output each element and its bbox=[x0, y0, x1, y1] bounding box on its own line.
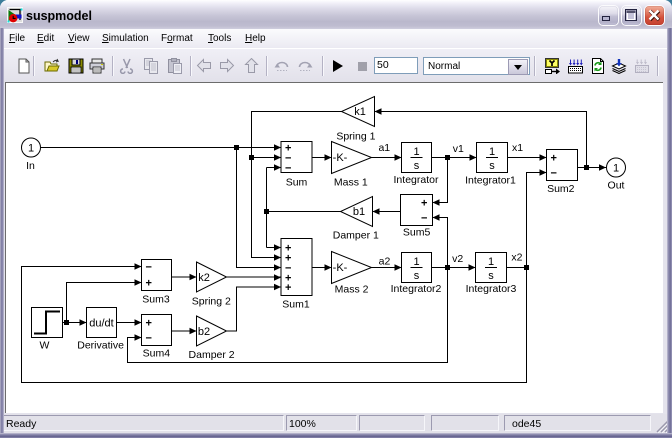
gain b1 Damper 1 (left-pointing triangle) bbox=[341, 197, 373, 227]
junction k1/Sum input 2 bbox=[249, 155, 254, 160]
wire Integrator1 to Sum2 + (x1) bbox=[508, 157, 547, 159]
svg-text:−: − bbox=[285, 163, 291, 175]
arrowhead Sum2 - input bbox=[540, 169, 547, 176]
arrowhead Integrator1 input bbox=[470, 154, 477, 161]
arrowhead Sum4 + input bbox=[135, 319, 142, 326]
gain Mass 2 (-K- triangle) bbox=[332, 252, 372, 284]
svg-text:b2: b2 bbox=[198, 326, 210, 338]
svg-text:Sum3: Sum3 bbox=[142, 294, 170, 306]
sum block Sum3 bbox=[142, 260, 172, 291]
svg-text:1: 1 bbox=[413, 256, 419, 268]
arrowhead Sum input 2 bbox=[274, 154, 281, 161]
svg-text:Sum5: Sum5 bbox=[403, 227, 431, 239]
arrowhead b2 input bbox=[190, 328, 197, 335]
svg-text:Damper 2: Damper 2 bbox=[189, 349, 235, 361]
derivative block du/dt bbox=[87, 308, 117, 338]
sum block Sum4 bbox=[142, 315, 172, 346]
wire k1 output left-down to Sum input 2 and Sum1 input 2 bbox=[252, 112, 342, 258]
svg-text:-K-: -K- bbox=[333, 152, 348, 164]
arrowhead Sum1 input 3 bbox=[274, 264, 281, 271]
step waveform inside W bbox=[34, 312, 60, 334]
arrowhead Sum3 - input bbox=[135, 263, 142, 270]
svg-text:du/dt: du/dt bbox=[89, 318, 113, 330]
svg-text:s: s bbox=[489, 160, 495, 172]
svg-text:1: 1 bbox=[28, 143, 34, 155]
arrowhead Sum1 input 4 bbox=[274, 274, 281, 281]
outport Out (circle 1) bbox=[607, 158, 626, 177]
svg-text:s: s bbox=[488, 270, 494, 282]
svg-text:−: − bbox=[146, 333, 152, 345]
arrowhead Integrator input bbox=[395, 154, 402, 161]
svg-text:Out: Out bbox=[608, 180, 625, 192]
wire v2 branch down-left-up to Sum4 - input bbox=[128, 268, 448, 363]
wire In to Sum input 1 bbox=[41, 147, 281, 149]
arrowhead Out port input bbox=[599, 164, 606, 171]
svg-text:Sum4: Sum4 bbox=[143, 348, 171, 360]
svg-text:v1: v1 bbox=[453, 143, 464, 155]
wire Integrator to Integrator1 (v1) bbox=[432, 157, 477, 159]
arrowhead Sum5 + input (points left) bbox=[433, 199, 440, 206]
port sign labels of sum blocks bbox=[146, 143, 557, 345]
svg-text:Sum2: Sum2 bbox=[547, 183, 575, 195]
wire Sum4 output to b2 input bbox=[172, 330, 197, 332]
integrator 1/s fractions bbox=[413, 146, 495, 282]
arrowhead Mass 2 input bbox=[325, 264, 332, 271]
wire Integrator3 output to x2 junction bbox=[507, 267, 527, 269]
svg-text:1: 1 bbox=[488, 256, 494, 268]
wire v1 branch down to Sum5 + input bbox=[433, 158, 448, 203]
wire b1 output left to junction bbox=[267, 211, 341, 213]
svg-text:In: In bbox=[26, 160, 35, 172]
wire Sum3 output to k2 input bbox=[172, 276, 197, 278]
block name labels bbox=[26, 131, 624, 362]
wire x2 junction down-left-up to Sum3 - input bbox=[22, 267, 527, 383]
wire Sum5 output to b1 input bbox=[373, 211, 401, 213]
integrator block Integrator1 bbox=[477, 143, 508, 173]
svg-text:Spring 1: Spring 1 bbox=[336, 131, 375, 143]
svg-text:Derivative: Derivative bbox=[77, 340, 124, 352]
svg-text:k1: k1 bbox=[354, 106, 366, 118]
sum block Sum2 bbox=[547, 150, 578, 181]
wire b1 junction up to Sum input 3 and down to Sum1 input 1 bbox=[267, 168, 282, 248]
wire Derivative output to Sum4 + input bbox=[117, 322, 142, 324]
svg-text:+: + bbox=[285, 282, 291, 294]
svg-text:Integrator3: Integrator3 bbox=[466, 283, 517, 295]
wire In branch down to Sum1 input 3 bbox=[237, 148, 282, 268]
svg-text:−: − bbox=[551, 168, 557, 180]
wire b2 output up to Sum1 input 5 bbox=[227, 287, 282, 331]
arrowhead k2 input bbox=[190, 274, 197, 281]
svg-text:Damper 1: Damper 1 bbox=[333, 230, 379, 242]
junction b1 wire bbox=[264, 209, 269, 214]
arrowhead Sum input 1 bbox=[274, 144, 281, 151]
wire W junction up to Sum3 + input bbox=[67, 283, 142, 323]
wire Sum2 output to Out port bbox=[578, 167, 607, 169]
svg-text:v2: v2 bbox=[452, 253, 463, 265]
svg-text:1: 1 bbox=[613, 163, 619, 175]
arrowhead Sum input 3 bbox=[274, 164, 281, 171]
svg-text:+: + bbox=[146, 278, 152, 290]
svg-text:Spring 2: Spring 2 bbox=[192, 296, 231, 308]
svg-text:s: s bbox=[414, 160, 420, 172]
svg-text:k2: k2 bbox=[198, 272, 210, 284]
arrowhead Sum1 input 2 bbox=[274, 254, 281, 261]
integrator block Integrator3 bbox=[476, 253, 507, 283]
arrowhead k1 input (points left) bbox=[375, 108, 382, 115]
svg-text:Mass 2: Mass 2 bbox=[335, 284, 369, 296]
svg-text:a2: a2 bbox=[379, 256, 391, 268]
svg-text:1: 1 bbox=[413, 146, 419, 158]
arrowhead Sum1 input 1 bbox=[274, 244, 281, 251]
junction W output bbox=[64, 320, 69, 325]
svg-text:+: + bbox=[421, 198, 427, 210]
arrowhead Mass 1 input bbox=[325, 154, 332, 161]
arrowhead Integrator3 input bbox=[469, 264, 476, 271]
svg-text:s: s bbox=[414, 270, 420, 282]
junction on In wire bbox=[234, 145, 239, 150]
svg-text:Sum1: Sum1 bbox=[282, 299, 310, 311]
svg-text:W: W bbox=[39, 340, 49, 352]
arrowhead Derivative input bbox=[80, 319, 87, 326]
svg-text:−: − bbox=[421, 213, 427, 225]
inport In (circle 1) bbox=[22, 138, 41, 157]
svg-text:Mass 1: Mass 1 bbox=[334, 177, 368, 189]
wire k2 output to Sum1 input 4 bbox=[227, 276, 282, 278]
svg-text:Integrator2: Integrator2 bbox=[391, 283, 442, 295]
integrator block Integrator2 bbox=[402, 253, 432, 283]
wire Integrator2 to Integrator3 (v2) bbox=[432, 267, 476, 269]
gain Mass 1 (-K- triangle) bbox=[332, 142, 372, 174]
gain value texts bbox=[28, 106, 619, 338]
junction Sum2 output bbox=[584, 165, 589, 170]
signal name labels bbox=[378, 142, 523, 268]
wire Sum output to Mass 1 bbox=[312, 157, 332, 159]
svg-text:b1: b1 bbox=[353, 206, 365, 218]
gain b2 Damper 2 bbox=[197, 316, 227, 346]
svg-text:+: + bbox=[551, 153, 557, 165]
arrowhead Sum2 + input bbox=[540, 154, 547, 161]
sum block Sum5 (mirrored) bbox=[401, 195, 433, 226]
wire Mass 1 to Integrator (a1) bbox=[372, 157, 402, 159]
arrowhead Sum5 - input (points left) bbox=[433, 214, 440, 221]
arrowhead Sum3 + input bbox=[135, 279, 142, 286]
wire x2 junction up to Sum2 - input bbox=[527, 173, 547, 268]
junction v2 bbox=[445, 265, 450, 270]
arrowhead Sum1 input 5 bbox=[274, 284, 281, 291]
wire Sum1 output to Mass 2 bbox=[312, 267, 332, 269]
junction v1 bbox=[445, 155, 450, 160]
svg-text:x2: x2 bbox=[511, 252, 522, 264]
step source block W bbox=[32, 308, 63, 338]
arrowhead Sum4 - input bbox=[135, 334, 142, 341]
arrowhead b1 input (points left) bbox=[373, 208, 380, 215]
svg-text:−: − bbox=[146, 262, 152, 274]
sum block Sum bbox=[281, 142, 312, 173]
fraction bars of integrators bbox=[411, 158, 499, 268]
svg-text:+: + bbox=[146, 318, 152, 330]
gain k1 Spring 1 (left-pointing triangle) bbox=[342, 97, 375, 127]
wire v2 branch up to Sum5 - input bbox=[433, 218, 448, 268]
svg-text:Integrator: Integrator bbox=[394, 174, 439, 186]
wire W output to Derivative bbox=[63, 322, 87, 324]
svg-text:1: 1 bbox=[489, 146, 495, 158]
svg-text:x1: x1 bbox=[512, 142, 523, 154]
sum block Sum1 (5 inputs) bbox=[281, 239, 312, 296]
svg-text:a1: a1 bbox=[378, 142, 390, 154]
wire Mass 2 to Integrator2 (a2) bbox=[372, 267, 402, 269]
svg-text:Sum: Sum bbox=[286, 177, 308, 189]
arrowhead Integrator2 input bbox=[395, 264, 402, 271]
gain k2 Spring 2 bbox=[197, 262, 227, 292]
svg-text:-K-: -K- bbox=[333, 262, 348, 274]
wire feedback from Sum2 output up-left to k1 input bbox=[375, 112, 587, 168]
junction x2 bbox=[524, 265, 529, 270]
integrator block Integrator bbox=[402, 143, 432, 173]
svg-text:Integrator1: Integrator1 bbox=[465, 175, 516, 187]
